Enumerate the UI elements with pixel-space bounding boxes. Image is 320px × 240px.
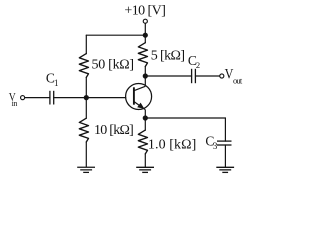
svg-text:10 [kΩ]: 10 [kΩ] — [94, 123, 134, 138]
capacitor C1 — [50, 91, 54, 105]
wire emitter node right to C3 branch — [145, 117, 225, 119]
ground (left) — [77, 167, 95, 172]
wire rail node to R3 — [144, 35, 146, 43]
resistor R4 1.0k zigzag — [138, 130, 147, 154]
node Vout terminal — [220, 74, 224, 78]
wire R2 to ground — [85, 142, 87, 167]
node collector junction — [143, 73, 148, 78]
svg-text:1: 1 — [54, 78, 59, 88]
transistor Q1 — [126, 76, 152, 118]
wire Vin terminal to C1 — [25, 97, 50, 99]
svg-text:+10 [V]: +10 [V] — [124, 4, 165, 19]
wire top rail — [86, 34, 145, 36]
node base junction — [84, 95, 89, 100]
wire emitter node down to R4 — [144, 118, 146, 130]
svg-text:3: 3 — [213, 141, 218, 151]
wire down to C3 — [224, 118, 226, 141]
wire base node down to R2 — [85, 98, 87, 119]
svg-text:1.0 [kΩ]: 1.0 [kΩ] — [148, 138, 196, 153]
svg-text:5 [kΩ]: 5 [kΩ] — [151, 48, 185, 63]
capacitor C3 — [217, 141, 232, 145]
svg-text:out: out — [233, 75, 243, 85]
wire C3 to ground — [224, 145, 226, 167]
wire C2 to Vout terminal — [195, 75, 219, 77]
wire R3 to collector node — [144, 67, 146, 77]
wire collector node to C2 — [145, 75, 191, 77]
node emitter junction — [143, 115, 148, 120]
capacitor C2 — [192, 69, 196, 83]
resistor R1 50k zigzag — [79, 54, 88, 78]
wire left vertical upper lead — [85, 35, 87, 54]
wire R4 to ground — [144, 154, 146, 167]
resistor R2 10k zigzag — [79, 118, 88, 142]
node rail junction — [143, 33, 148, 38]
ground (middle) — [136, 167, 154, 172]
svg-text:in: in — [12, 99, 18, 108]
resistor R3 5k zigzag — [138, 43, 147, 67]
wire +10V terminal to rail node — [144, 24, 146, 35]
wire R1 to base node — [85, 77, 87, 97]
node Vin terminal — [21, 96, 25, 100]
wire C1 to transistor base — [54, 97, 126, 99]
ground (right) — [216, 167, 234, 172]
svg-text:2: 2 — [196, 60, 200, 70]
node +10V terminal — [143, 19, 147, 23]
svg-text:50 [kΩ]: 50 [kΩ] — [92, 57, 135, 72]
